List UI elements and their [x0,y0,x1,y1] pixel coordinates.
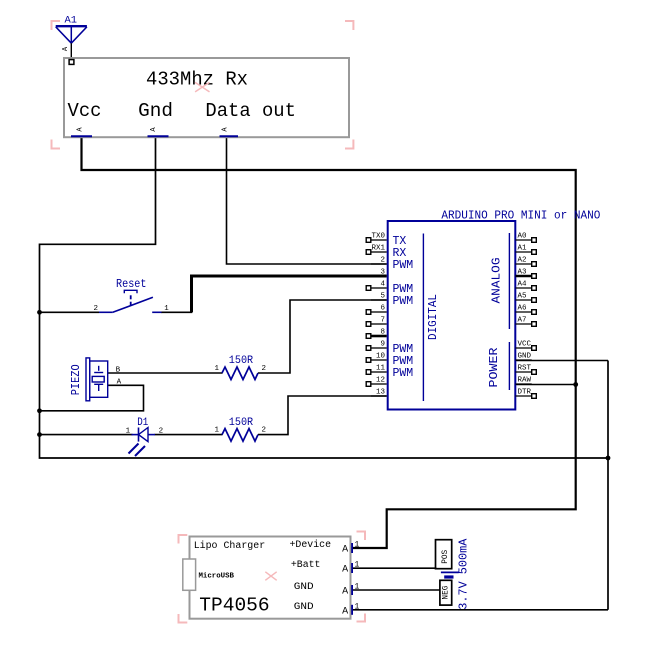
svg-text:A: A [342,565,348,576]
svg-text:3.7V 500mA: 3.7V 500mA [457,538,471,610]
svg-text:B: B [116,366,121,374]
svg-text:1: 1 [164,305,169,313]
Arduino left pin 6 [366,305,387,315]
pink selection corner top-right of TP4056 group [357,532,366,541]
svg-text:Vcc: Vcc [68,100,102,122]
Arduino internal label PWM row 9 [393,343,414,356]
wire piezo B to resistor R1 [108,372,223,374]
svg-text:NEG: NEG [440,586,450,600]
svg-text:A: A [342,587,348,598]
svg-text:1: 1 [126,428,131,436]
svg-text:PIEZO: PIEZO [70,364,83,395]
wire Gnd net right vertical [607,361,609,610]
svg-text:DTR: DTR [518,389,532,397]
svg-text:9: 9 [380,341,385,349]
Arduino internal label PWM row 4 [393,283,414,296]
svg-text:11: 11 [376,365,386,373]
R2 pin label 2 [262,427,267,435]
svg-text:RAW: RAW [518,377,532,385]
svg-text:5: 5 [380,293,385,301]
wire piezo A to ground bus [40,385,144,411]
Arduino left pin 11 [366,365,387,375]
switch pin label 2 [93,305,98,313]
svg-text:1: 1 [215,427,220,435]
battery symbol plates [441,572,459,577]
R1 pin label 1 [215,365,220,373]
junction on Vcc net at RAW [573,382,578,387]
svg-text:A4: A4 [518,281,528,289]
TP4056 pin GND row 4 [294,602,360,618]
Arduino left pin 8 [366,329,387,339]
svg-text:150R: 150R [229,355,254,367]
wire Gnd net: 433Rx Gnd down, left bus, bottom bus to right [40,137,609,458]
pink selection corner top-left of TP4056 group [179,535,188,544]
svg-text:POS: POS [440,550,450,564]
svg-text:A0: A0 [518,233,528,241]
svg-text:8: 8 [380,329,385,337]
svg-text:12: 12 [376,377,385,385]
Arduino left pin TX0 [366,233,387,243]
resistor R2 150R (LED) [222,429,258,442]
label 3.7V 500mA [457,538,471,610]
wire resistor R2 to Arduino pin 13 [258,396,387,435]
svg-text:Lipo Charger: Lipo Charger [194,540,266,552]
svg-text:D1: D1 [137,417,148,429]
piezo pin label B [116,366,121,374]
Arduino DIGITAL divider line [422,234,424,402]
svg-text:6: 6 [380,305,385,313]
Arduino left pin 10 [366,353,387,363]
Arduino right pin VCC [516,341,537,351]
Arduino right pin A5 [516,293,537,303]
wire resistor R1 to Arduino pin 5 [258,300,387,373]
Arduino right pin GND [516,353,532,361]
label 150R of R2 [229,417,254,429]
svg-text:433Mhz Rx: 433Mhz Rx [146,69,248,91]
Arduino left pin 7 [366,317,387,327]
label TP4056 [199,594,269,616]
title ARDUINO PRO MINI or NANO [441,209,600,222]
svg-text:POWER: POWER [487,348,501,388]
svg-text:150R: 150R [229,417,254,429]
svg-text:2: 2 [93,305,98,313]
svg-text:3: 3 [380,269,385,277]
wire RAW pin to Vcc vertical [516,384,576,386]
wire ground bus to LED D1 anode [40,434,133,436]
label Reset [116,277,147,291]
svg-text:PWM: PWM [393,259,414,272]
svg-text:PWM: PWM [393,367,414,380]
Arduino label POWER [487,348,501,388]
svg-text:1: 1 [215,365,220,373]
pin Data out blue line and name [220,127,239,137]
svg-text:10: 10 [376,353,386,361]
svg-text:A: A [342,545,348,556]
label Vcc [68,100,102,122]
label PIEZO [70,364,83,395]
op-amp U1 Arduino Pro Mini box [388,221,516,410]
label MicroUSB [199,573,235,581]
resistor R1 150R (piezo) [222,367,258,380]
svg-text:ANALOG: ANALOG [490,258,504,304]
wire switch pin 1 to Arduino pin 3 (thick) [161,276,387,312]
switch Reset pins and lever [99,297,162,312]
Arduino left pin RX1 [366,245,387,255]
svg-text:A2: A2 [518,257,527,265]
Arduino right pin A6 [516,305,537,315]
Arduino left pin 13 [371,389,387,397]
svg-text:MicroUSB: MicroUSB [199,573,235,581]
label Gnd [138,100,173,122]
svg-text:ARDUINO PRO MINI or NANO: ARDUINO PRO MINI or NANO [441,209,600,222]
pink selection corner bottom-right of 433Rx group [345,140,353,149]
wire TP4056 GND pin 4 to right vertical [351,609,608,611]
label Lipo Charger [194,540,266,552]
label 150R of R1 [229,355,254,367]
svg-text:A5: A5 [518,293,528,301]
pink selection corner top-left of 433Rx group [52,21,61,30]
Arduino right pin A7 [516,317,537,327]
Arduino left pin 12 [366,377,387,387]
svg-text:4: 4 [380,281,385,289]
Arduino internal label RX row RX1 [393,247,407,260]
TP4056 pin +Batt row 2 [291,560,360,576]
battery connector NEG terminal [440,580,452,605]
Arduino internal label TX row TX0 [393,235,407,248]
D1 pin label 2 [159,428,164,436]
D1 pin label 1 [126,428,131,436]
svg-text:GND: GND [294,582,314,593]
wire LED D1 to resistor R2 [155,434,223,436]
svg-text:PWM: PWM [393,295,414,308]
Arduino right pin A4 [516,281,537,291]
wire TP4056 GND pin 3 to battery NEG [351,589,441,591]
pin square antenna input on box top [69,60,74,65]
pin name A on antenna wire [62,46,70,51]
Arduino right pin RST [516,365,537,375]
svg-text:13: 13 [376,389,386,397]
Arduino internal label PWM row 10 [393,355,414,368]
svg-text:+Batt: +Batt [291,560,321,571]
antenna A1 symbol [56,26,87,43]
svg-text:2: 2 [159,428,164,436]
svg-text:Reset: Reset [116,277,147,291]
pink selection corner bottom-left of TP4056 group [179,614,188,623]
Arduino left pin 2 [371,257,387,265]
module box 433Mhz Rx [64,58,349,137]
Arduino internal label PWM row 5 [393,295,414,308]
Arduino left pin 3 [371,269,387,277]
LED D1 symbol [129,428,156,457]
pin Gnd blue line and name [148,127,169,137]
svg-text:A3: A3 [518,269,528,277]
Arduino POWER divider line [508,342,510,390]
svg-text:1: 1 [355,602,360,611]
pink origin cross of TP4056 part [265,572,276,581]
svg-text:+Device: +Device [290,539,332,551]
svg-text:A7: A7 [518,317,527,325]
piezo transducer symbol [86,358,108,401]
svg-text:TP4056: TP4056 [199,594,269,616]
svg-text:RST: RST [518,365,532,373]
Arduino ANALOG divider line [508,233,510,329]
module box TP4056 Lipo Charger [190,537,351,619]
Arduino right pin A3 [516,269,537,279]
svg-text:A1: A1 [518,245,528,253]
Arduino left pin 9 [366,341,387,351]
svg-text:A: A [117,378,122,386]
MicroUSB connector rectangle [183,559,196,590]
Arduino left pin 4 [366,281,387,291]
title 433Mhz Rx [146,69,248,91]
wire TP4056 +Batt to battery POS [351,567,437,569]
label D1 [137,417,148,429]
svg-text:2: 2 [262,365,267,373]
Arduino right pin A2 [516,257,537,267]
switch pin label 1 [164,305,169,313]
wire Arduino GND pin to right vertical [516,360,609,362]
svg-text:Gnd: Gnd [138,100,173,122]
svg-text:1: 1 [355,561,360,570]
svg-text:1: 1 [355,583,360,592]
wire Vcc net: 433Rx Vcc down, across top right, down to TP4056 +Device [82,137,576,548]
svg-text:A1: A1 [65,15,78,26]
Arduino left pin 5 [371,293,387,301]
Arduino right pin RAW [516,377,532,385]
svg-text:1: 1 [355,541,360,550]
svg-text:GND: GND [518,353,532,361]
junction Gnd bus at LED D1 [37,432,42,437]
Arduino internal label PWM row 11 [393,367,414,380]
Arduino right pin A1 [516,245,537,255]
svg-text:Data out: Data out [205,100,296,122]
label Data out [205,100,296,122]
svg-text:RX1: RX1 [371,245,385,253]
TP4056 pin GND row 3 [294,582,360,598]
svg-text:TX0: TX0 [371,233,385,241]
svg-text:2: 2 [380,257,385,265]
Arduino label ANALOG [490,258,504,304]
pink origin cross of 433Rx part [195,82,209,92]
svg-text:VCC: VCC [518,341,532,349]
Arduino right pin DTR [516,389,537,399]
switch actuator bracket and dashed stem [124,290,137,305]
pin Vcc blue line and name [71,127,92,137]
junction Gnd bus at switch pin 2 [37,310,42,315]
wire switch pin 2 to ground bus [40,311,100,313]
junction Gnd net right side [606,456,611,461]
Arduino internal label PWM row 2 [393,259,414,272]
svg-text:7: 7 [380,317,385,325]
svg-text:2: 2 [262,427,267,435]
R2 pin label 1 [215,427,220,435]
Arduino label DIGITAL [426,294,440,340]
wire antenna stem to module pin [70,43,72,60]
svg-text:A6: A6 [518,305,528,313]
R1 pin label 2 [262,365,267,373]
battery connector POS terminal [436,540,452,569]
pink selection corner bottom-right of TP4056 group [357,614,366,622]
svg-text:GND: GND [294,602,314,613]
label A1 [65,15,78,26]
junction Gnd bus at piezo A return [37,408,42,413]
piezo pin label A [117,378,122,386]
Arduino right pin A0 [516,233,537,243]
pink selection corner top-right of 433Rx group [345,21,353,30]
wire Data out to Arduino pin 2 [227,137,387,264]
svg-text:DIGITAL: DIGITAL [426,294,440,340]
TP4056 pin +Device row 1 [290,539,360,556]
pink selection corner bottom-left of 433Rx group [52,140,61,149]
svg-text:A: A [342,606,348,617]
